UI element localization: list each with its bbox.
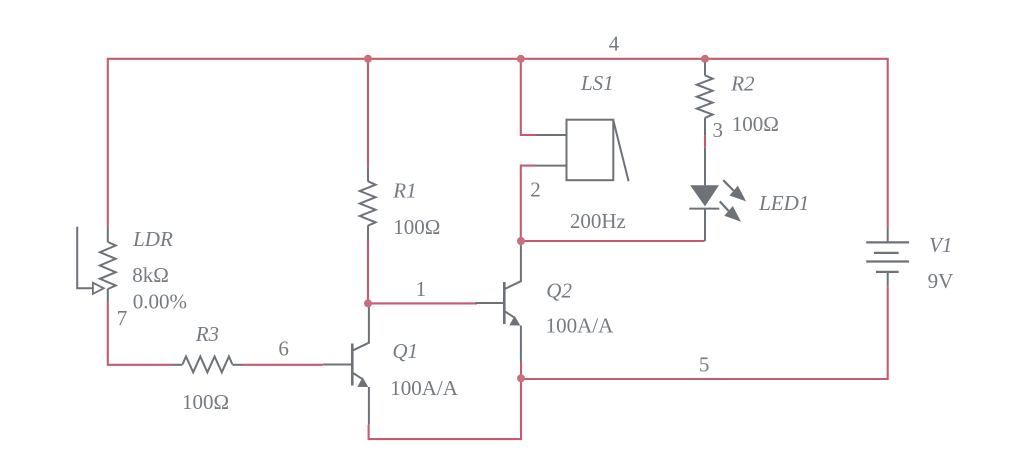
svg-text:100A/A: 100A/A (390, 376, 459, 400)
svg-text:2: 2 (530, 178, 541, 202)
svg-text:0.00%: 0.00% (133, 290, 187, 314)
svg-text:100Ω: 100Ω (182, 390, 229, 414)
svg-text:LED1: LED1 (758, 191, 809, 215)
svg-text:LS1: LS1 (580, 71, 614, 95)
svg-text:5: 5 (699, 353, 710, 377)
svg-text:Q2: Q2 (546, 279, 572, 303)
svg-text:LDR: LDR (132, 227, 173, 251)
svg-text:200Hz: 200Hz (570, 209, 626, 233)
svg-text:9V: 9V (928, 269, 954, 293)
svg-text:R3: R3 (195, 322, 219, 346)
svg-text:8kΩ: 8kΩ (132, 263, 169, 287)
svg-text:6: 6 (278, 337, 289, 361)
svg-text:Q1: Q1 (392, 339, 418, 363)
svg-text:3: 3 (713, 118, 724, 142)
svg-text:1: 1 (416, 277, 427, 301)
svg-text:V1: V1 (929, 233, 952, 257)
svg-text:7: 7 (117, 306, 128, 330)
svg-text:R1: R1 (392, 178, 416, 202)
svg-text:100A/A: 100A/A (546, 314, 615, 338)
svg-text:100Ω: 100Ω (393, 215, 440, 239)
svg-text:4: 4 (609, 32, 620, 56)
svg-text:R2: R2 (730, 72, 755, 96)
svg-text:100Ω: 100Ω (732, 112, 779, 136)
